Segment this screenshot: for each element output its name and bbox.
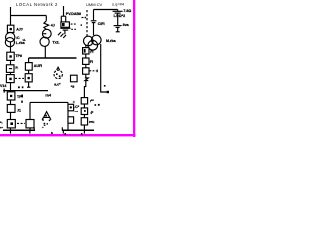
breaker F1 box [83,48,89,54]
switch B3 box [26,120,34,128]
border line magenta right [133,0,135,137]
wire dashed measurement line [86,10,88,36]
switch A3 box [6,75,14,83]
wire T2 bottom lead [44,46,46,58]
switch B2 box [25,74,32,82]
svg-text:Tx2.: Tx2. [52,40,59,44]
converter PV box [61,22,70,27]
svg-text:rn4: rn4 [45,93,51,97]
svg-text:*9: *9 [71,85,74,89]
wire dashed link A6-B3 [17,122,25,124]
capacitor C-top pair 2 [114,25,122,27]
svg-text:FI: FI [90,60,93,64]
svg-text:UMM CV: UMM CV [86,2,103,7]
breaker C1 box [68,104,74,111]
svg-text:P.: P. [15,66,18,70]
svg-text:TPI: TPI [17,95,23,99]
breaker E1 box [81,98,87,104]
transformer T3 winding 3 [88,41,98,51]
svg-text:a: a [81,132,83,136]
transformer T1 winding 2 [5,38,14,47]
breaker TP box [7,52,14,60]
svg-text:V14: V14 [0,84,6,88]
ground chassis ticks [58,32,61,35]
breaker P box [6,65,14,73]
fuse F4 zigzag [44,21,49,30]
breaker F2 box [83,58,89,64]
breaker AUF1 box [25,63,32,71]
wire mid horizontal [29,57,77,59]
generator sun symbol [54,70,62,78]
breaker E2 box [81,108,87,115]
svg-text:M.rba: M.rba [106,39,117,43]
breaker TPI box [7,92,15,100]
wire H3 horizontal [30,101,68,103]
svg-text:ı≡u: ı≡u [89,120,94,124]
wire dashed stub right of PV box [71,23,77,25]
svg-text:ı**: ı** [90,99,94,103]
bus bar 2 bottom [62,129,94,131]
breaker C2 box [68,117,74,123]
wire H4 top-right horizontal [94,9,118,11]
breaker J1 box [7,105,15,113]
node dashes under H_A [21,95,23,97]
node dots above H_A [18,86,20,88]
switch A6 box [7,120,15,128]
wire PV feeder vertical [63,6,65,16]
svg-text:TP#: TP# [15,54,22,58]
transformer T3 winding 2 [92,35,102,45]
wire C column [67,102,69,130]
wind star symbol [44,112,50,118]
svg-text::C: :C [16,36,20,40]
label texts [16,2,58,7]
svg-text:ı:: ı: [73,100,75,104]
node z-mark [85,78,88,81]
svg-text:PV.DAB#: PV.DAB# [66,12,81,16]
wire T3 right lead [101,44,107,92]
svg-text:s.q=#4: s.q=#4 [112,1,125,6]
wire [85,54,87,58]
meter G box [71,75,78,82]
wire [85,64,87,67]
breaker A1 [7,25,13,32]
svg-text:*”: *” [0,126,3,130]
transformer T2 winding 1 [42,29,51,38]
svg-text:LOCAL Network 2: LOCAL Network 2 [16,2,58,7]
transformer T2 winding 2 [40,37,49,46]
battery PV plates [60,27,70,29]
wire B3 drop [29,102,31,119]
wire B column drop [28,58,30,63]
wire column A vertical [10,7,12,130]
border line magenta bottom [0,134,136,136]
wire H1 top horizontal [11,15,47,17]
svg-text:a: a [64,132,66,136]
capacitor C-top pair 1 [117,10,119,12]
wire [28,70,30,74]
wire dashed link A3-B2 [15,77,24,79]
svg-text:CIFI: CIFI [98,22,105,26]
svg-text:u.: u. [23,38,26,42]
wire F column [85,45,87,47]
wire fuse lead [45,16,47,21]
wire dash-dot label stub [71,28,76,30]
svg-text:FI: FI [90,50,93,54]
wire E column [84,74,85,130]
svg-text:,.″: ,.″ [42,124,46,128]
svg-text:J1: J1 [17,109,21,113]
bus bar 1 bottom [3,129,35,131]
wire dashed stub right of F3 [89,70,96,72]
svg-text:L/2Ω*2: L/2Ω*2 [114,14,125,18]
transformer T3 winding 1 [84,36,94,46]
wire B column tail [28,82,30,87]
svg-text:*:: *: [0,121,3,125]
wire H_A junction bus [3,90,48,92]
svg-text:AJ?: AJ? [16,27,23,31]
capacitor CIFI [91,20,97,22]
svg-text:AUFI: AUFI [34,64,42,68]
wire B3 to bus [29,128,31,130]
svg-text:3va: 3va [123,23,130,27]
svg-text:4J: 4J [51,24,55,28]
svg-text:7.8Ω: 7.8Ω [123,9,131,13]
breaker E3 box [81,118,87,125]
svg-text:a.c*: a.c* [54,82,61,86]
switch F3 box [83,68,89,74]
transformer T1 winding 1 [6,33,15,42]
wire [93,10,95,21]
